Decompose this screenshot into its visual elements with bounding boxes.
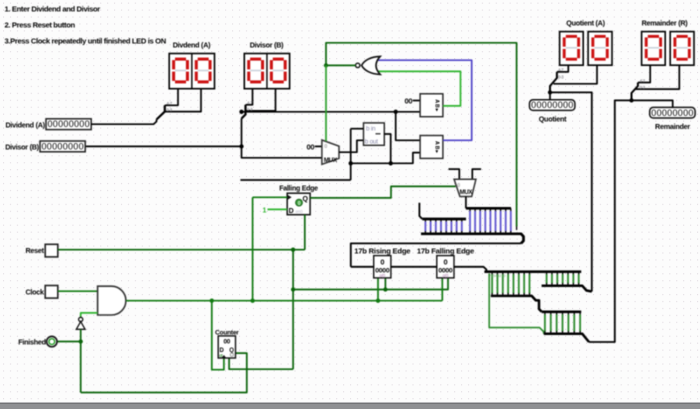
wire register chain d input (351, 266, 374, 268)
wire green loop top (326, 43, 517, 227)
wire dividend bus (91, 120, 157, 125)
wire counter Q to not gate (81, 353, 247, 392)
svg-text:4-7: 4-7 (558, 68, 564, 73)
svg-text:p(t): p(t) (380, 273, 386, 278)
wire register1 reset branch (384, 278, 386, 290)
svg-text:Q: Q (303, 196, 309, 203)
junction upper bus (394, 110, 398, 114)
wire branch to comparator 2 input A (396, 112, 420, 141)
svg-text:en0: en0 (296, 209, 304, 214)
splitter top-left bar (422, 218, 466, 221)
input pin Clock (45, 286, 58, 299)
wire nor output (326, 64, 356, 66)
svg-text:0: 0 (380, 257, 384, 266)
wire divisor upper bus (242, 111, 421, 113)
svg-text:0-3: 0-3 (558, 74, 564, 79)
splitter group2 bottom-left bar (491, 296, 542, 312)
svg-text:17b Falling Edge: 17b Falling Edge (417, 246, 474, 255)
svg-text:Divisor (B): Divisor (B) (250, 41, 284, 50)
wire not to and gate input 2 (bright) (81, 313, 98, 317)
wire stub y180 (240, 179, 350, 181)
wire splitter to register1 D (351, 243, 521, 266)
counter U-counter (218, 336, 235, 358)
svg-text:00: 00 (307, 142, 315, 151)
svg-text:MUX: MUX (324, 157, 338, 164)
junction divisor bus (239, 144, 243, 148)
wire dff reset bottom (304, 215, 306, 250)
wire reset to counter (229, 358, 293, 369)
svg-text:Falling Edge: Falling Edge (279, 185, 318, 192)
svg-text:4-7: 4-7 (247, 101, 253, 106)
svg-text:1: 1 (263, 207, 267, 214)
wire finished led branch (57, 341, 81, 343)
svg-text:p(t): p(t) (443, 273, 449, 278)
svg-text:7 6 5 4 3 2 1 0: 7 6 5 4 3 2 1 0 (489, 274, 505, 278)
svg-text:Quotient: Quotient (539, 114, 567, 123)
splitter legs purple left group (424, 219, 426, 222)
wire comparator2 output (purple) (378, 60, 472, 140)
7-segment hex display Remainder digit 1 (642, 32, 666, 66)
svg-text:Remainder: Remainder (655, 122, 690, 131)
svg-text:Reset: Reset (25, 246, 44, 255)
7-segment hex display Dividend (169, 54, 214, 89)
mux MUX1 (322, 140, 339, 164)
splitter top-right bar (466, 207, 511, 210)
splitter divisor display (242, 105, 246, 119)
wire divisor vertical (242, 119, 322, 158)
svg-text:0: 0 (443, 257, 447, 266)
wire reset to registers (293, 278, 448, 290)
register 17b Falling Edge (437, 256, 454, 278)
svg-text:Divisor (B): Divisor (B) (5, 143, 39, 152)
wire to counter clock (212, 301, 224, 370)
wire divisor bus (86, 145, 242, 147)
svg-text:Dividend (A): Dividend (A) (5, 120, 45, 129)
junction and out to counter clock (210, 299, 214, 303)
wire to dff clock vertical (252, 197, 254, 300)
splitter group3 bottom bar (544, 334, 589, 342)
svg-text:1. Enter Dividend and Divisor: 1. Enter Dividend and Divisor (5, 4, 101, 13)
svg-text:0-3: 0-3 (640, 85, 646, 90)
d flip-flop U-dff (287, 193, 310, 215)
junction remainder (629, 98, 633, 102)
wire subtractor output (384, 134, 390, 163)
and gate (98, 286, 126, 315)
splitter remainder display (638, 65, 650, 82)
svg-text:4-7: 4-7 (640, 78, 646, 83)
svg-text:Divdend (A): Divdend (A) (173, 41, 211, 50)
window bottom edge (0, 403, 700, 409)
input pin Reset (45, 244, 58, 257)
wire reset vertical (292, 250, 294, 370)
junction reset (291, 248, 295, 252)
svg-text:4-7: 4-7 (167, 101, 173, 106)
svg-text:00: 00 (405, 96, 413, 105)
wire register1 clock branch (377, 278, 379, 301)
output pin Quotient 00000000 (530, 100, 575, 111)
splitter bottom spine (421, 234, 524, 244)
junction and out to dff clock (250, 299, 254, 303)
junction reset registers (291, 287, 295, 291)
junction and out to register1 clock (376, 299, 380, 303)
svg-text:D: D (289, 208, 294, 215)
splitter group3 top bar (542, 310, 582, 313)
svg-text:00000000: 00000000 (41, 141, 83, 151)
junction subtractor output (389, 161, 393, 165)
7-segment hex display Quotient digit 1 (560, 32, 584, 66)
wire register2 output (454, 267, 486, 272)
7-segment hex display Divisor (244, 54, 289, 89)
splitter group3 legs (544, 312, 546, 315)
wire and gate output (126, 300, 442, 302)
svg-text:b in: b in (366, 125, 376, 132)
not gate (facing up) (79, 317, 83, 321)
junction nor output (324, 63, 328, 67)
svg-text:Clock: Clock (25, 288, 44, 297)
svg-text:00: 00 (223, 339, 230, 346)
wire remainder to pin (632, 100, 673, 107)
wire nor to MUX1 select (325, 65, 327, 141)
wire reset main (58, 249, 305, 251)
splitter dividend display (157, 105, 165, 119)
wire MUX2 input stub right (472, 169, 481, 179)
junction quotient (548, 90, 552, 94)
svg-text:0: 0 (324, 144, 327, 150)
svg-text:2. Press Reset button: 2. Press Reset button (5, 21, 76, 30)
wire quotient to ladder (550, 92, 592, 291)
splitter group2 short bar (542, 286, 592, 292)
register 17b Rising Edge (374, 256, 391, 278)
svg-text:0: 0 (457, 183, 460, 189)
input pin Dividend A 00000000 (46, 119, 91, 130)
splitter group2 top spine (484, 270, 581, 273)
svg-text:A B ▸: A B ▸ (434, 141, 440, 153)
junction finished led (79, 339, 83, 343)
led Finished (47, 336, 57, 346)
wire not gate input vertical (80, 329, 82, 392)
input pin Divisor B 00000000 (40, 141, 85, 152)
wire remainder to ladder (589, 100, 632, 342)
wire MUX2 output (465, 197, 467, 209)
nor gate (362, 56, 381, 74)
wire MUX2 input stub left (449, 169, 460, 179)
svg-text:A B ▸: A B ▸ (434, 99, 440, 111)
wire remainder bit wrap (green) (489, 274, 544, 334)
wire subtractor input A (351, 128, 364, 130)
splitter legs purple right group (469, 208, 471, 211)
subtractor b in / b out (364, 123, 385, 145)
junction divisor splitter (239, 110, 243, 114)
wire clock to and gate (58, 290, 98, 292)
output pin Remainder 00000000 (650, 107, 695, 118)
wire to comparator 2 input B (351, 153, 420, 164)
wire quotient bit in (green leg) (516, 227, 518, 231)
comparator U-comp1 (420, 94, 443, 117)
splitter group2 legs long (491, 272, 493, 275)
svg-text:3.Press Clock repeatedly until: 3.Press Clock repeatedly until finished … (5, 37, 166, 46)
svg-text:MUX: MUX (460, 190, 473, 196)
wire register2 clock branch (441, 278, 443, 301)
wire dff clock input (253, 196, 288, 198)
splitter quotient display (557, 65, 568, 72)
svg-text:00000000: 00000000 (531, 100, 573, 110)
splitter group2 legs short (546, 272, 548, 275)
7-segment hex display Quotient digit 2 (588, 32, 612, 66)
wire vertical V1 (350, 129, 352, 180)
svg-text:17b Rising Edge: 17b Rising Edge (354, 246, 410, 255)
wire dff Q output (310, 186, 456, 198)
comparator U-comp2 (420, 136, 443, 159)
7-segment hex display Remainder digit 2 (670, 32, 694, 66)
svg-text:Remainder (R): Remainder (R) (642, 19, 689, 28)
wire comparator1 output (green) (378, 71, 461, 106)
mux MUX2 (454, 179, 476, 196)
wire MUX1 output (339, 140, 364, 152)
wire quotient to pin (549, 92, 551, 99)
svg-text:0-3: 0-3 (167, 107, 173, 112)
svg-text:Quotient (A): Quotient (A) (566, 19, 605, 28)
svg-text:00000000: 00000000 (651, 108, 693, 118)
wire stub to splitter top-left (419, 203, 422, 219)
svg-text:b out: b out (365, 139, 378, 146)
svg-text:Finished: Finished (18, 338, 46, 347)
junction register1 reset (383, 287, 387, 291)
junction V1 (349, 161, 353, 165)
wire register1 to register2 (391, 266, 437, 268)
svg-text:00000000: 00000000 (47, 119, 89, 129)
